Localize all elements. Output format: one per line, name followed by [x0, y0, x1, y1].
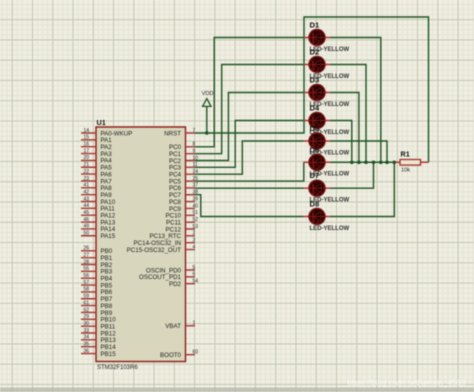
- svg-text:D4: D4: [310, 104, 320, 113]
- svg-text:D7: D7: [310, 171, 320, 180]
- svg-text:BOOT0: BOOT0: [160, 352, 182, 359]
- svg-text:https://blog.csdn.net/weixin_4: https://blog.csdn.net/weixin_4563: [347, 379, 466, 388]
- svg-text:D8: D8: [310, 200, 320, 209]
- svg-text:NRST: NRST: [164, 130, 181, 137]
- svg-text:R1: R1: [401, 150, 410, 159]
- svg-text:10k: 10k: [401, 168, 410, 174]
- svg-text:D3: D3: [310, 76, 320, 85]
- svg-text:U1: U1: [97, 118, 106, 127]
- svg-text:D2: D2: [310, 48, 320, 57]
- svg-text:STM32F103R6: STM32F103R6: [97, 365, 138, 371]
- svg-text:PC15-OSC32_OUT: PC15-OSC32_OUT: [127, 247, 182, 254]
- svg-text:PB15: PB15: [101, 351, 117, 358]
- svg-text:VBAT: VBAT: [165, 323, 181, 330]
- svg-text:LED-YELLOW: LED-YELLOW: [310, 226, 350, 232]
- svg-text:D5: D5: [310, 124, 320, 133]
- svg-text:D6: D6: [310, 145, 320, 154]
- svg-text:D1: D1: [310, 21, 320, 30]
- svg-text:PA15: PA15: [101, 233, 116, 240]
- svg-text:VDD: VDD: [202, 91, 214, 97]
- svg-text:PD2: PD2: [169, 281, 182, 288]
